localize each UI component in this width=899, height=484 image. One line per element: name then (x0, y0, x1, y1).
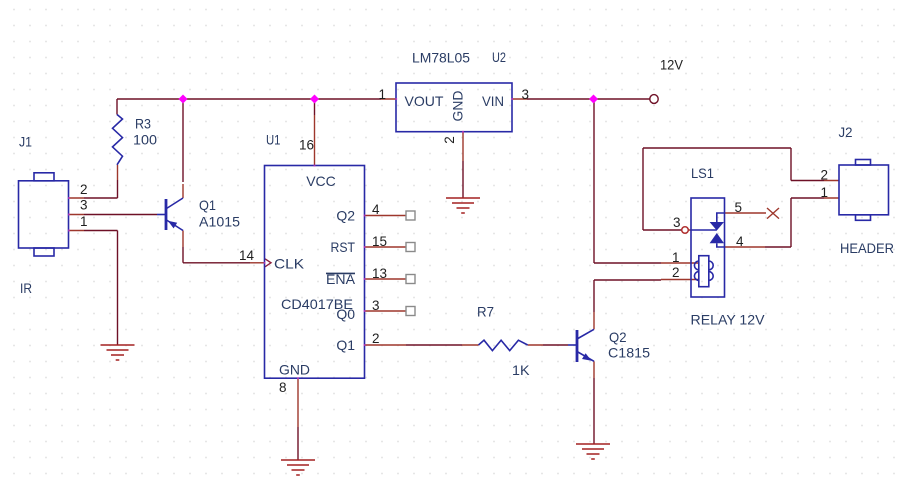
svg-text:VCC: VCC (306, 173, 336, 189)
svg-text:C1815: C1815 (608, 345, 650, 361)
svg-text:3: 3 (673, 215, 681, 230)
svg-text:1: 1 (672, 250, 680, 265)
svg-text:100: 100 (133, 132, 157, 148)
svg-text:13: 13 (372, 266, 387, 281)
svg-text:1K: 1K (512, 362, 530, 378)
svg-text:VOUT: VOUT (405, 93, 444, 109)
svg-text:8: 8 (279, 380, 287, 395)
svg-text:R3: R3 (135, 116, 151, 132)
svg-text:1: 1 (821, 185, 829, 200)
svg-text:2: 2 (821, 168, 829, 183)
svg-text:3: 3 (372, 298, 380, 313)
svg-text:16: 16 (299, 138, 314, 153)
svg-text:Q2: Q2 (336, 208, 355, 224)
svg-text:GND: GND (279, 362, 310, 378)
svg-text:2: 2 (80, 182, 88, 197)
svg-text:IR: IR (20, 280, 32, 296)
svg-text:3: 3 (80, 198, 88, 213)
svg-text:J2: J2 (839, 124, 853, 140)
svg-text:LS1: LS1 (691, 165, 714, 181)
svg-text:U2: U2 (492, 49, 506, 65)
svg-text:CLK: CLK (274, 256, 305, 272)
svg-text:5: 5 (735, 200, 743, 215)
svg-text:1: 1 (80, 214, 88, 229)
svg-text:Q1: Q1 (336, 337, 355, 353)
svg-text:GND: GND (450, 91, 466, 122)
svg-text:2: 2 (442, 136, 457, 144)
svg-text:CD4017BE: CD4017BE (281, 296, 353, 312)
svg-text:Q1: Q1 (199, 197, 216, 213)
svg-text:2: 2 (372, 331, 380, 346)
svg-text:4: 4 (372, 202, 380, 217)
svg-text:J1: J1 (19, 134, 32, 150)
svg-text:R7: R7 (477, 304, 494, 320)
svg-text:2: 2 (672, 265, 680, 280)
svg-text:RST: RST (331, 239, 356, 255)
svg-text:RELAY 12V: RELAY 12V (691, 312, 766, 328)
svg-text:12V: 12V (660, 57, 684, 73)
svg-text:VIN: VIN (482, 93, 504, 109)
svg-text:1: 1 (379, 87, 387, 102)
svg-text:LM78L05: LM78L05 (412, 50, 470, 66)
svg-text:3: 3 (522, 87, 530, 102)
svg-text:Q2: Q2 (609, 329, 627, 345)
svg-text:15: 15 (372, 234, 387, 249)
svg-text:14: 14 (239, 248, 255, 263)
svg-text:A1015: A1015 (199, 214, 240, 230)
svg-text:U1: U1 (266, 132, 281, 148)
svg-text:4: 4 (736, 234, 744, 249)
svg-text:HEADER: HEADER (840, 240, 894, 256)
